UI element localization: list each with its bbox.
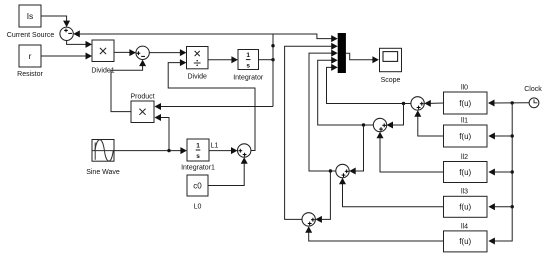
block Divide bbox=[187, 47, 209, 69]
label L0 bbox=[194, 204, 202, 211]
node Sum6 branch junction bbox=[329, 169, 332, 172]
svg-text:Sine Wave: Sine Wave bbox=[86, 169, 120, 176]
svg-text:ll2: ll2 bbox=[461, 154, 468, 161]
svg-text:L0: L0 bbox=[194, 204, 202, 211]
block Divide1 bbox=[92, 40, 114, 62]
wire feedback to Sum3 bbox=[73, 30, 273, 37]
wire ll4 to Sum7 bottom bbox=[305, 226, 443, 241]
svg-text:s: s bbox=[196, 153, 200, 160]
svg-text:f(u): f(u) bbox=[459, 203, 471, 212]
sum Sum5 (plus ll2) bbox=[373, 118, 386, 131]
svg-text:Integrator1: Integrator1 bbox=[181, 165, 215, 172]
label Product bbox=[130, 94, 154, 101]
block Is (Current Source) bbox=[19, 5, 41, 27]
wire clock bus down to ll4 bbox=[488, 103, 512, 245]
svg-text:f(u): f(u) bbox=[459, 99, 471, 108]
block Sine Wave bbox=[92, 140, 114, 162]
label L1 on wire bbox=[211, 143, 219, 150]
svg-text:ll0: ll0 bbox=[461, 84, 468, 91]
wire clock tap to ll1 bbox=[488, 133, 512, 140]
label Integrator1 bbox=[181, 165, 215, 172]
wire Divide1 to Sum1 bbox=[114, 49, 136, 56]
block Product bbox=[131, 101, 154, 123]
svg-text:1: 1 bbox=[196, 143, 200, 150]
sum Sum4 (ll0 plus ll1) bbox=[411, 97, 424, 110]
label ll0 bbox=[461, 84, 468, 91]
label ll3 bbox=[461, 189, 468, 196]
svg-text:Current Source: Current Source bbox=[7, 32, 55, 39]
wire clock tap to ll3 bbox=[488, 203, 512, 210]
label Integrator bbox=[233, 74, 264, 81]
wire Integrator1 to SumL1 bbox=[209, 147, 238, 154]
svg-text:Integrator: Integrator bbox=[233, 74, 264, 81]
svg-text:ll4: ll4 bbox=[461, 223, 468, 230]
svg-text:r: r bbox=[29, 51, 32, 61]
svg-text:Divide: Divide bbox=[187, 74, 207, 81]
label ll4 bbox=[461, 223, 468, 230]
label Sine Wave bbox=[86, 169, 120, 176]
label Scope bbox=[381, 77, 401, 84]
node junction on riser bbox=[271, 44, 274, 47]
sum SumL1 (L1 plus L0) bbox=[238, 144, 251, 157]
block r (Resistor) bbox=[19, 45, 41, 67]
node clock junction bbox=[511, 101, 514, 104]
node Sum5 branch junction bbox=[362, 123, 365, 126]
svg-text:s: s bbox=[246, 63, 250, 70]
wire Product to Sum1 bbox=[111, 60, 146, 112]
wire Divide to Integrator bbox=[208, 56, 238, 63]
svg-text:Product: Product bbox=[130, 94, 154, 101]
wire Sum3 to Divide1 input 1 bbox=[67, 41, 92, 48]
wire Integrator to junction bbox=[259, 59, 274, 61]
label Divide1 bbox=[91, 67, 114, 74]
wire ll2 to Sum5 bottom bbox=[377, 132, 444, 172]
svg-text:Scope: Scope bbox=[381, 77, 401, 84]
wire Sum7 to Mux input 2 bbox=[285, 43, 338, 220]
node clock tap ll3 bbox=[511, 205, 514, 208]
label Divide bbox=[187, 74, 207, 81]
block Clock bbox=[529, 98, 539, 108]
block ll0 f(u) bbox=[444, 92, 488, 114]
svg-text:f(u): f(u) bbox=[459, 168, 471, 177]
node sine branch junction bbox=[167, 149, 170, 152]
block c0 bbox=[187, 175, 208, 196]
wire ll3 to Sum6 bottom bbox=[339, 178, 444, 207]
wire Sum4 to Mux input 5 bbox=[327, 64, 411, 104]
svg-text:Resistor: Resistor bbox=[17, 71, 43, 78]
svg-text:f(u): f(u) bbox=[459, 132, 471, 141]
wire top feedback to Mux input 1 bbox=[273, 34, 338, 42]
wire SumL1 to Divide input 2 bbox=[168, 59, 255, 150]
block ll2 f(u) bbox=[444, 162, 488, 183]
label ll1 bbox=[461, 117, 468, 124]
wire sine branch to Product input 2 bbox=[155, 114, 170, 151]
wire ll0 to Sum4 bbox=[424, 100, 443, 107]
label Clock bbox=[524, 86, 542, 93]
svg-text:Is: Is bbox=[27, 11, 34, 21]
block ll3 f(u) bbox=[444, 196, 488, 217]
wire Clock to ll0 bbox=[488, 100, 529, 107]
wire Is to Sum3 bbox=[41, 16, 70, 27]
wire Sum4 branch to Sum5 bbox=[387, 104, 404, 129]
block Integrator bbox=[238, 50, 259, 70]
node Sum4 branch junction bbox=[402, 102, 405, 105]
svg-text:Clock: Clock bbox=[524, 86, 542, 93]
label Resistor bbox=[17, 71, 43, 78]
wire Sum6 to Mux input 3 bbox=[309, 50, 338, 171]
wire Sine Wave to Integrator1 bbox=[114, 147, 187, 154]
wire Mux to Scope bbox=[346, 53, 379, 63]
sum Sum1 (Divide1 minus Product) bbox=[136, 46, 149, 59]
node integrator output junction bbox=[271, 58, 274, 61]
svg-text:ll1: ll1 bbox=[461, 117, 468, 124]
block ll1 f(u) bbox=[444, 125, 488, 147]
wire vertical feedback riser x273 bbox=[272, 34, 274, 107]
svg-text:c0: c0 bbox=[193, 182, 202, 191]
wire ll1 to Sum4 bottom bbox=[414, 110, 443, 136]
node clock tap ll1 bbox=[511, 134, 514, 137]
wire r to Divide1 input 2 bbox=[41, 53, 92, 60]
wire integrator branch to Product input 1 bbox=[155, 103, 274, 110]
label Current Source bbox=[7, 32, 55, 39]
wire Sum1 to Divide input 1 bbox=[149, 49, 186, 56]
sum Sum7 (plus ll4) bbox=[302, 213, 315, 226]
sum Sum3 (Is minus feedback) bbox=[60, 27, 73, 40]
block ll4 f(u) bbox=[444, 231, 488, 252]
svg-text:1: 1 bbox=[246, 52, 250, 59]
wire c0 to SumL1 bbox=[208, 157, 248, 185]
sum Sum6 (plus ll3) bbox=[336, 164, 349, 177]
svg-text:ll3: ll3 bbox=[461, 189, 468, 196]
block Scope bbox=[380, 48, 402, 71]
svg-text:L1: L1 bbox=[211, 143, 219, 150]
svg-text:f(u): f(u) bbox=[459, 237, 471, 246]
wire Sum6 branch to Sum7 bbox=[315, 171, 330, 223]
wire clock tap to ll2 bbox=[488, 169, 512, 176]
label ll2 bbox=[461, 154, 468, 161]
node clock tap ll2 bbox=[511, 170, 514, 173]
mux Mux bbox=[338, 33, 346, 73]
block Integrator1 bbox=[187, 139, 209, 161]
wire Sum5 to Mux input 4 bbox=[318, 57, 374, 125]
wire Sum5 branch to Sum6 bbox=[349, 125, 363, 175]
